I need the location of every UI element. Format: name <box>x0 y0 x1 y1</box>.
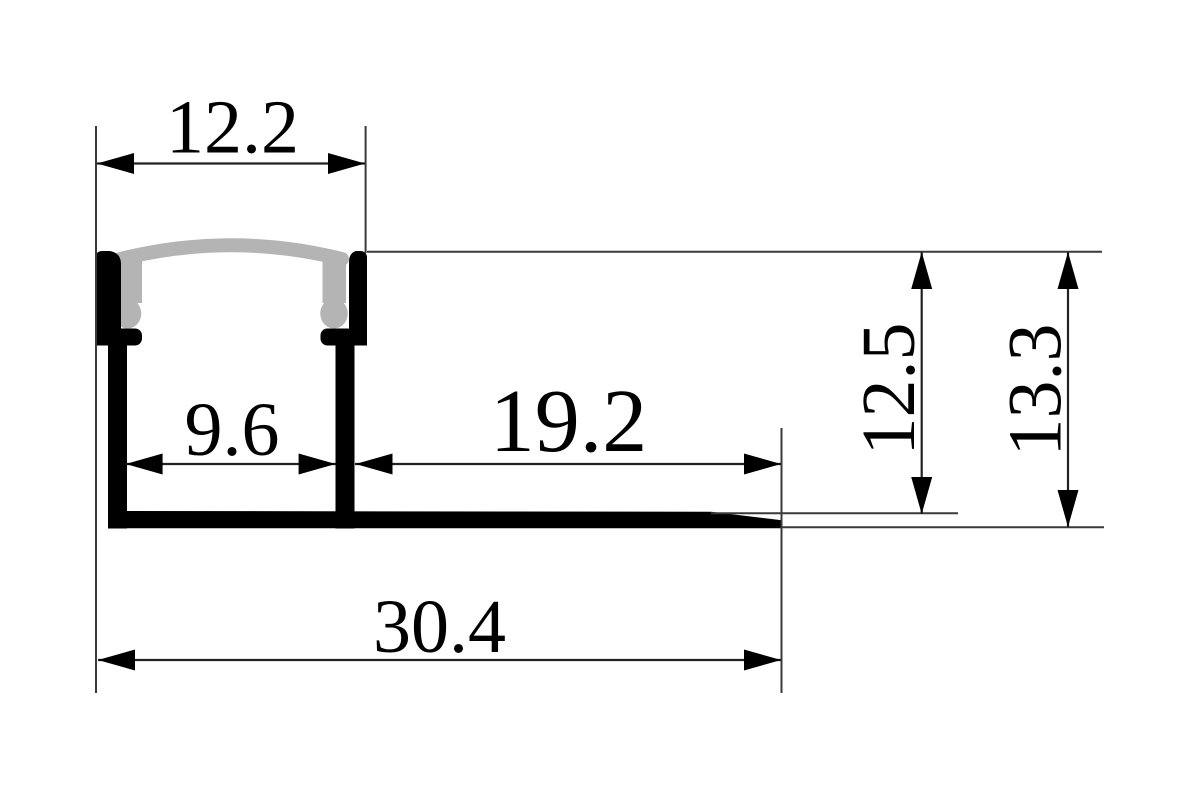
svg-text:9.6: 9.6 <box>185 388 280 472</box>
svg-text:19.2: 19.2 <box>490 372 648 471</box>
svg-text:30.4: 30.4 <box>373 585 506 669</box>
svg-text:12.2: 12.2 <box>166 86 299 170</box>
svg-text:13.3: 13.3 <box>994 324 1078 457</box>
svg-text:12.5: 12.5 <box>847 323 931 456</box>
